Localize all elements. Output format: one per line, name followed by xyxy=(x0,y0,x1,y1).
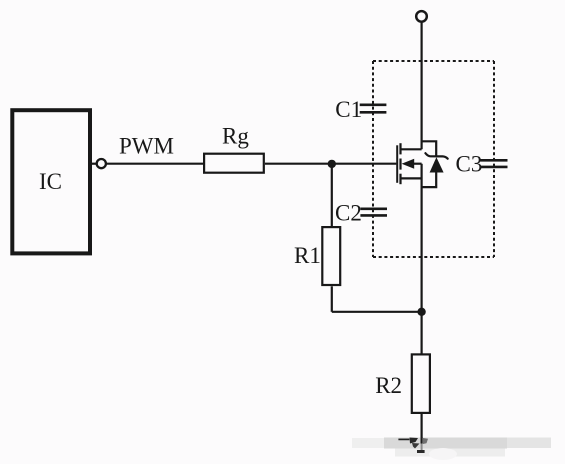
body diode top branch wire xyxy=(422,141,437,156)
transistor Q1 drain connection xyxy=(401,148,422,150)
wire IC pin stub xyxy=(91,163,96,165)
svg-text:C2: C2 xyxy=(335,200,362,225)
wire IC output to Rg xyxy=(107,163,206,165)
capacitor C1 xyxy=(335,97,386,122)
capacitor C3 xyxy=(456,152,508,177)
wire drain to top terminal xyxy=(421,22,423,149)
svg-text:R2: R2 xyxy=(375,373,402,398)
supply terminal circle (top) xyxy=(416,11,427,22)
svg-text:Rg: Rg xyxy=(222,124,249,149)
wire gate junction to MOSFET gate xyxy=(332,163,397,165)
transistor Q1 source connection xyxy=(401,177,422,179)
wire Rg to gate junction xyxy=(265,163,332,165)
wire R1 bottom lead xyxy=(331,286,333,312)
resistor R1 xyxy=(294,227,340,285)
transistor Q1 channel middle segment xyxy=(399,159,401,170)
svg-text:C1: C1 xyxy=(335,97,362,122)
IC U1 box xyxy=(12,110,90,253)
svg-text:C3: C3 xyxy=(456,152,483,177)
capacitor C2 xyxy=(335,200,387,225)
wire R2 bottom lead xyxy=(421,414,423,439)
body diode triangle xyxy=(430,157,444,172)
body diode cathode bar xyxy=(425,153,447,159)
transistor Q1 gate plate xyxy=(396,145,398,183)
wire gate junction down to R1 xyxy=(331,164,333,227)
ground xyxy=(414,439,431,451)
wire R1 to source node xyxy=(332,311,422,313)
transistor Q1 body arrow xyxy=(402,159,422,169)
dashed parasitic boundary box xyxy=(373,61,494,257)
node junction dot (gate node) xyxy=(328,160,336,168)
wire source down to R2 xyxy=(421,164,423,354)
transistor Q1 channel top segment xyxy=(399,143,401,154)
resistor R2 xyxy=(375,354,430,413)
resistor Rg xyxy=(204,124,264,173)
transistor Q1 channel bottom segment xyxy=(399,174,401,185)
node junction dot (source node) xyxy=(417,308,425,316)
body diode bottom branch wire xyxy=(422,172,437,187)
svg-text:PWM: PWM xyxy=(119,134,174,159)
pin terminal circle at IC output xyxy=(97,159,106,168)
svg-text:R1: R1 xyxy=(294,243,321,268)
svg-text:IC: IC xyxy=(39,169,62,194)
